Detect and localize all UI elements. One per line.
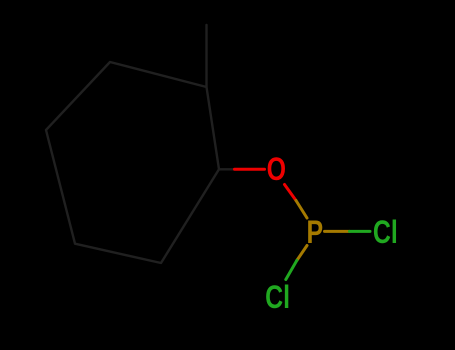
svg-text:Cl: Cl [265,280,290,316]
svg-text:P: P [306,215,323,251]
svg-text:Cl: Cl [373,215,398,251]
svg-text:O: O [267,152,286,188]
